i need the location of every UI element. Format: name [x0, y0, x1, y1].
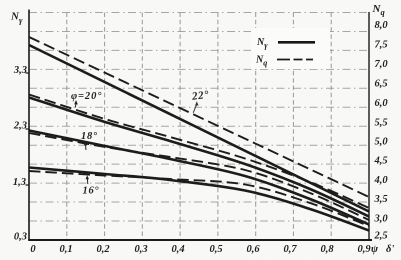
label arrow phi20 [74, 104, 77, 108]
svg-text:0,3: 0,3 [14, 232, 27, 243]
svg-text:4,5: 4,5 [374, 156, 388, 167]
svg-text:φ=20°: φ=20° [71, 91, 102, 102]
right axis numbers [374, 20, 389, 242]
svg-text:0,9: 0,9 [357, 244, 371, 255]
vertical gridlines (dashed) [67, 13, 331, 241]
svg-text:3,0: 3,0 [374, 214, 389, 225]
y axis left [28, 10, 30, 241]
arrowheads [74, 100, 198, 179]
svg-text:5,5: 5,5 [375, 118, 388, 129]
svg-text:0,4: 0,4 [171, 244, 184, 255]
svg-text:7,5: 7,5 [375, 40, 388, 51]
svg-text:6,0: 6,0 [375, 98, 389, 109]
svg-text:0: 0 [30, 244, 36, 255]
svg-text:0,8: 0,8 [320, 244, 334, 255]
svg-text:22°: 22° [190, 89, 210, 103]
curve Ngamma 16deg (solid) [29, 168, 369, 231]
svg-text:1,3: 1,3 [13, 177, 26, 188]
svg-text:0,7: 0,7 [283, 244, 297, 255]
svg-text:2,5: 2,5 [374, 231, 388, 242]
svg-text:2,3: 2,3 [13, 121, 27, 132]
svg-text:0,1: 0,1 [59, 244, 72, 255]
x axis numbers [30, 244, 371, 255]
svg-text:0,2: 0,2 [96, 244, 110, 255]
left axis numbers [13, 65, 27, 243]
curve Nq 22deg (dashed) [29, 37, 369, 197]
curve Nq 16deg (dashed) [29, 171, 369, 226]
svg-text:3,5: 3,5 [374, 194, 388, 205]
curve Ngamma 20deg (solid) [29, 98, 369, 217]
svg-text:ψ: ψ [371, 244, 379, 255]
curve Nq 18deg (dashed) [29, 133, 369, 220]
svg-text:18°: 18° [81, 131, 98, 142]
legend dashed sample [277, 59, 314, 61]
curve Ngamma 18deg (solid) [29, 131, 369, 225]
label arrow 22 [193, 105, 196, 113]
svg-text:0,3: 0,3 [134, 244, 147, 255]
svg-text:3,3: 3,3 [13, 65, 27, 76]
svg-text:δ': δ' [386, 244, 394, 255]
legend solid sample [278, 41, 315, 44]
svg-text:7,0: 7,0 [375, 59, 389, 70]
svg-text:6,5: 6,5 [375, 79, 388, 90]
x axis [28, 239, 372, 241]
label arrow 16 [86, 179, 88, 184]
svg-text:5,0: 5,0 [375, 137, 389, 148]
svg-text:4,0: 4,0 [374, 175, 389, 186]
curve Nq 20deg (dashed) [29, 95, 369, 209]
svg-text:8,0: 8,0 [375, 20, 389, 31]
legend mask [251, 28, 330, 69]
svg-text:16°: 16° [83, 186, 100, 197]
svg-text:0,6: 0,6 [246, 244, 260, 255]
curve Ngamma 22deg (solid) [29, 45, 369, 212]
label arrow 18 [85, 145, 87, 150]
horizontal gridlines (dash-dot) [29, 13, 369, 222]
y axis right [368, 12, 370, 240]
left axis ticks [26, 73, 30, 185]
svg-text:0,5: 0,5 [209, 244, 222, 255]
